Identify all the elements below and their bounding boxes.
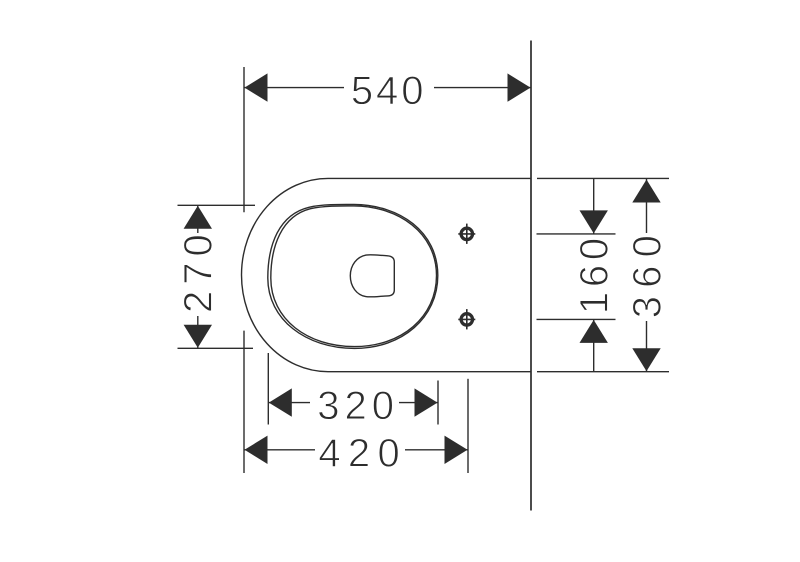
mounting hole 1 (458, 224, 475, 244)
drain opening (350, 255, 394, 297)
dim 540 label (344, 69, 434, 106)
svg-text:160: 160 (572, 233, 616, 314)
dim 420 arrow right (445, 436, 468, 464)
dim 320 arrow left (269, 388, 292, 416)
dim 360 arrow down (632, 348, 660, 371)
dim 420 extension line right (467, 379, 469, 473)
bowl rim outer line (268, 204, 438, 348)
dim 420 arrow left (245, 436, 268, 464)
dim 160 extension line bottom (537, 318, 616, 320)
dim 320 label (310, 384, 399, 421)
dim 270 arrow down (184, 325, 212, 348)
dim 160 arrow down (580, 210, 608, 233)
svg-text:420: 420 (318, 432, 407, 476)
dim 270 extension line bottom (178, 347, 254, 349)
svg-text:360: 360 (625, 227, 669, 318)
dim 270 extension line top (178, 204, 256, 206)
dim 360 line (646, 179, 648, 372)
dim 360 label (628, 233, 665, 321)
toilet outline front cap (241, 178, 328, 371)
dim 160 tail bottom (593, 319, 595, 371)
toilet outline top edge (328, 177, 531, 179)
dim 160 extension line top (537, 233, 616, 235)
dim 420 line (244, 449, 468, 451)
dim 320 arrow right (415, 388, 438, 416)
dim 540 arrow left (245, 73, 268, 101)
dim 540 line (244, 87, 531, 89)
toilet outline bottom edge (328, 371, 531, 373)
dim 320 line (268, 402, 438, 404)
dim 320 extension line right (437, 381, 439, 425)
dim 540 extension line left (243, 67, 245, 212)
dim 360 arrow up (632, 180, 660, 203)
dim 160 tail top (593, 179, 595, 234)
svg-text:270: 270 (177, 228, 221, 313)
dim 270 label (179, 233, 216, 316)
dim 270 arrow up (184, 206, 212, 229)
svg-text:540: 540 (351, 69, 427, 113)
bowl rim inner line (271, 206, 437, 347)
wall line (530, 41, 532, 511)
dim 320 extension line left (267, 353, 269, 425)
mounting hole 2 (458, 309, 475, 329)
dim 270 line (197, 205, 199, 348)
dim 420 extension line left (243, 331, 245, 473)
dim 540 arrow right (508, 73, 531, 101)
svg-text:320: 320 (317, 384, 399, 428)
dim 160 arrow up (580, 320, 608, 343)
dim 420 label (315, 431, 405, 468)
